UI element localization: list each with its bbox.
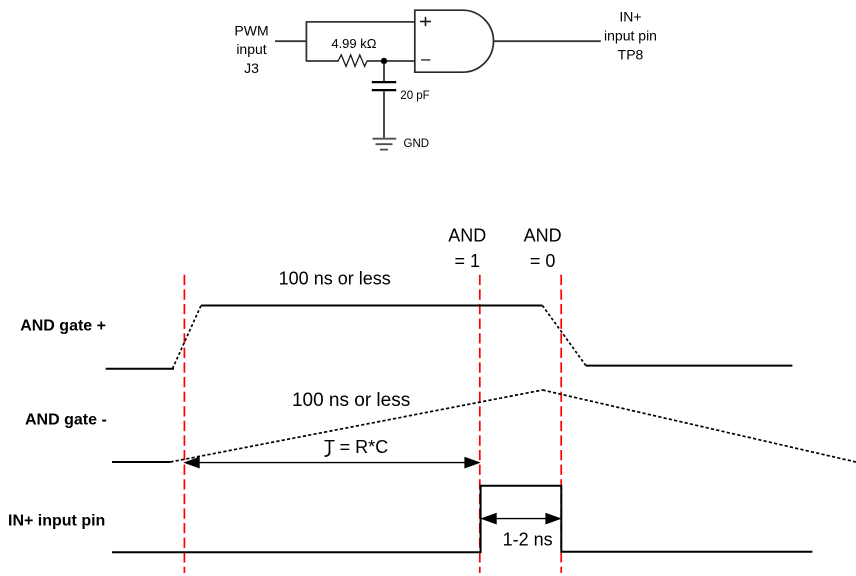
svg-text:AND= 0: AND= 0 — [524, 225, 562, 271]
svg-text:IN+ input pin: IN+ input pin — [8, 512, 105, 529]
svg-text:1-2 ns: 1-2 ns — [503, 529, 553, 549]
red dashed timeline t3 — [560, 275, 562, 573]
wire to resistor — [306, 60, 339, 62]
resistor R1 4.99k zigzag — [338, 55, 367, 67]
AND gate + waveform — [106, 306, 793, 369]
red dashed timeline t2 — [479, 275, 481, 573]
IN+ input pin waveform — [112, 486, 812, 552]
svg-text:IN+input pinTP8: IN+input pinTP8 — [604, 9, 657, 63]
junction node dot — [381, 58, 387, 64]
wire to + input — [306, 21, 415, 23]
1-2 ns arrow — [482, 513, 561, 523]
svg-text:100 ns or less: 100 ns or less — [279, 268, 391, 288]
svg-text:AND gate +: AND gate + — [20, 317, 106, 334]
svg-text:20 pF: 20 pF — [400, 90, 429, 102]
tau hook stroke — [325, 452, 330, 457]
svg-text:100 ns or less: 100 ns or less — [292, 390, 410, 411]
output wire — [494, 40, 601, 42]
plus input marker — [420, 17, 431, 26]
ground symbol — [373, 139, 397, 150]
svg-text:AND gate -: AND gate - — [25, 412, 107, 429]
capacitor C1 — [372, 63, 396, 138]
wire resistor to - input — [367, 60, 415, 62]
AND gate - waveform — [112, 390, 856, 462]
red dashed timeline t1 — [183, 275, 185, 573]
svg-text:AND= 1: AND= 1 — [448, 225, 486, 271]
svg-text:GND: GND — [404, 138, 430, 150]
minus input marker — [421, 59, 430, 61]
tau arrow (T = R*C span) — [185, 457, 480, 467]
wire PWM stub — [275, 40, 307, 42]
svg-text:T = R*C: T = R*C — [324, 437, 388, 457]
wire branch vertical — [305, 22, 307, 61]
svg-text:4.99 kΩ: 4.99 kΩ — [331, 36, 376, 51]
svg-text:PWMinputJ3: PWMinputJ3 — [234, 22, 268, 75]
AND gate U1 body — [415, 10, 494, 72]
